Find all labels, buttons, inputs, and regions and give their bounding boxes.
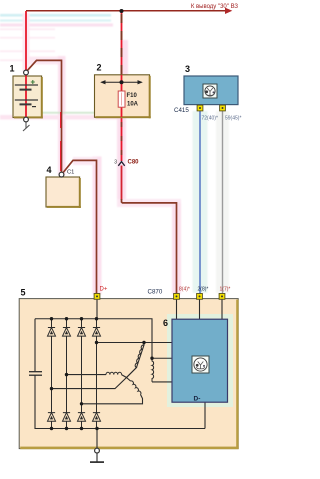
svg-text:D-: D-: [194, 396, 201, 403]
svg-text:К выводу "30" ВЗ: К выводу "30" ВЗ: [191, 4, 239, 10]
svg-text:5: 5: [21, 288, 26, 298]
svg-text:72(40)*: 72(40)*: [202, 115, 218, 121]
svg-text:6: 6: [163, 318, 168, 328]
svg-text:3: 3: [114, 159, 117, 165]
svg-text:F10: F10: [127, 93, 138, 99]
svg-text:3: 3: [185, 64, 190, 74]
svg-text:C870: C870: [148, 289, 163, 296]
svg-text:C1: C1: [67, 170, 74, 176]
svg-text:4: 4: [47, 165, 52, 175]
svg-text:2: 2: [97, 63, 102, 73]
svg-text:1: 1: [10, 64, 15, 74]
svg-text:8(4)*: 8(4)*: [179, 286, 190, 292]
svg-text:2(8)*: 2(8)*: [198, 286, 209, 292]
svg-text:C415: C415: [174, 107, 189, 114]
svg-text:C80: C80: [128, 159, 140, 165]
svg-text:10A: 10A: [127, 102, 139, 108]
svg-text:1(7)*: 1(7)*: [220, 286, 231, 292]
svg-text:D+: D+: [100, 287, 108, 293]
svg-text:59(45)*: 59(45)*: [225, 115, 241, 121]
